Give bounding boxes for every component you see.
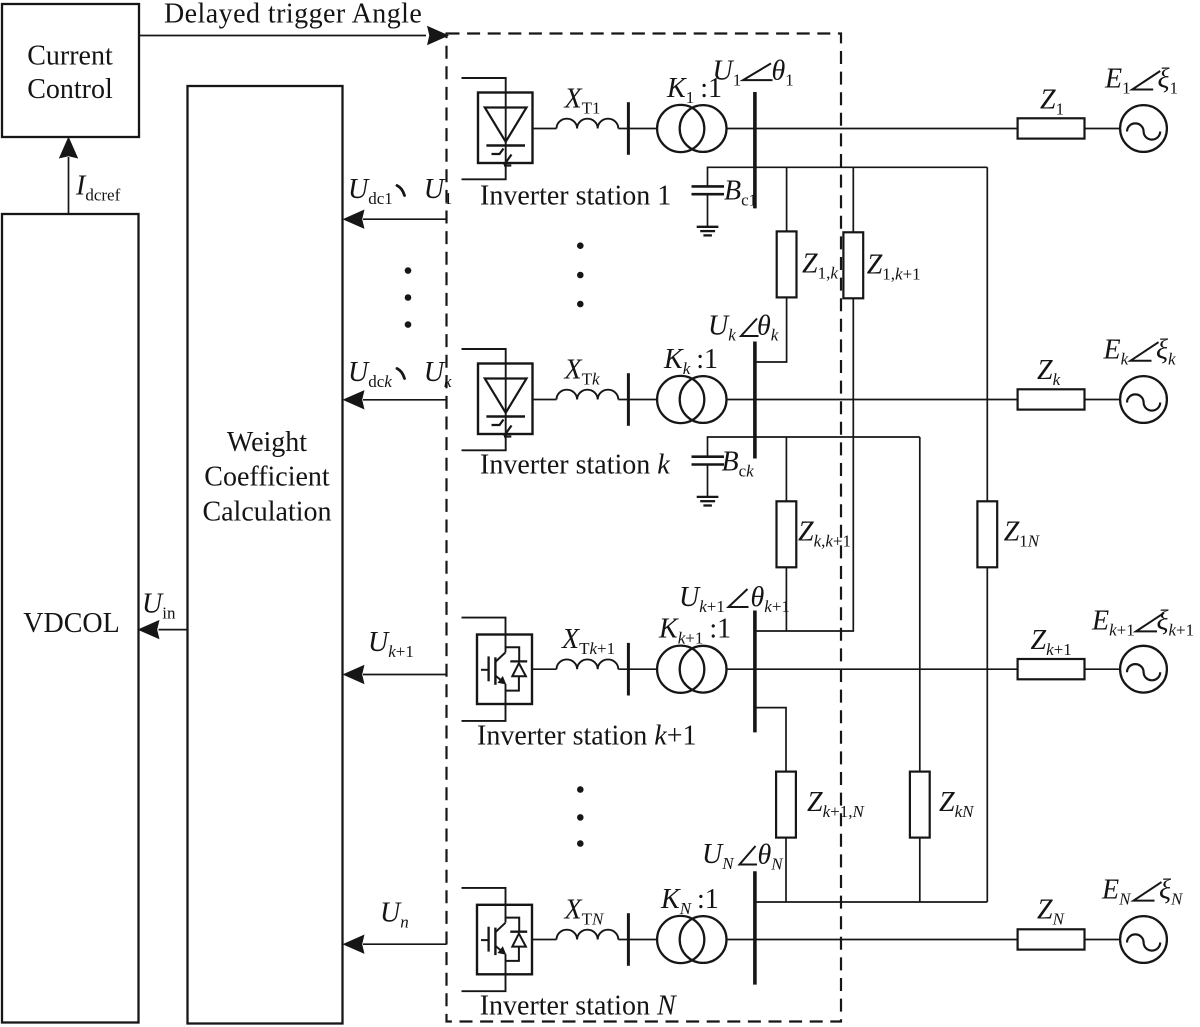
svg-text:Ek: Ek	[1103, 335, 1129, 369]
svg-text:Ek+1: Ek+1	[1091, 605, 1135, 639]
dots between station rows (left column)	[405, 267, 412, 274]
wire Zk,k+1 top lead	[785, 437, 787, 501]
wire Delayed trigger Angle arrow	[140, 35, 427, 37]
svg-text:θk: θk	[757, 311, 779, 345]
wire Idcref arrow VDCOL to Current Control	[68, 157, 70, 214]
svg-text:Z1,k: Z1,k	[802, 249, 838, 283]
svg-text:XT1: XT1	[564, 84, 601, 118]
svg-text:ξk+1: ξk+1	[1157, 605, 1195, 639]
wire Z1N bottom lead	[986, 567, 988, 902]
svg-text:Zk+1,N: Zk+1,N	[807, 787, 865, 821]
inductor XT1	[557, 119, 619, 129]
wire station k sub-line	[707, 436, 920, 438]
bus bar converter bus 1	[627, 102, 630, 155]
svg-text:Kk:1: Kk:1	[663, 344, 718, 378]
AC bus Uk+1	[753, 611, 757, 733]
svg-text:XTN: XTN	[564, 895, 606, 929]
wire transformer to Z line N	[727, 939, 1018, 941]
svg-text:θN: θN	[758, 840, 785, 874]
wire Un feedback arrow	[363, 943, 447, 945]
capacitor Bc1	[707, 167, 709, 186]
svg-text:Uk+1: Uk+1	[368, 627, 414, 661]
impedance ZkN	[910, 772, 930, 838]
wire Z1,k top lead	[786, 167, 788, 231]
svg-text:Bck: Bck	[722, 447, 755, 481]
wire ZkN bottom lead	[919, 838, 921, 902]
svg-text:Inverter station N: Inverter station N	[480, 991, 677, 1022]
impedance ZN	[1018, 929, 1085, 949]
svg-text:Zk+1: Zk+1	[1031, 625, 1072, 659]
capacitor Bck	[707, 437, 709, 457]
converter valve (VSC IGBT) station N	[462, 888, 533, 991]
dashed boundary box of inverter stations	[447, 34, 842, 1022]
svg-text:E1: E1	[1104, 64, 1131, 98]
impedance Zk+1	[1018, 659, 1085, 679]
wire Z1N top lead	[986, 167, 988, 501]
svg-text:ZkN: ZkN	[939, 787, 975, 821]
bus bar converter bus k+1	[627, 643, 630, 696]
svg-text:Inverter station k+1: Inverter station k+1	[477, 721, 697, 752]
svg-text:Uk: Uk	[424, 357, 452, 391]
impedance Z1N	[977, 501, 997, 567]
block Current Control	[2, 4, 139, 137]
wire transformer to Z line 1	[727, 128, 1018, 130]
svg-text:Z1N: Z1N	[1004, 517, 1041, 551]
svg-text:ξN: ξN	[1159, 875, 1184, 909]
svg-text:VDCOL: VDCOL	[23, 608, 119, 639]
impedance Zk+1,N	[776, 772, 796, 838]
transformer Tk+1	[657, 646, 704, 693]
svg-text:Bc1: Bc1	[724, 176, 757, 210]
wire Z1,k+1 bottom lead to bus k+1	[755, 298, 853, 631]
svg-text:ξk: ξk	[1156, 335, 1176, 369]
inductor XTk	[557, 390, 619, 400]
AC source Ek	[1120, 376, 1167, 423]
svg-text:Un: Un	[380, 898, 409, 932]
svg-text:XTk: XTk	[564, 355, 601, 389]
ground Bc1	[697, 226, 719, 228]
svg-text:Current: Current	[27, 41, 113, 72]
svg-text:Inverter station k: Inverter station k	[480, 450, 670, 481]
svg-text:ZN: ZN	[1037, 895, 1066, 929]
svg-text:Uin: Uin	[142, 589, 176, 623]
wire Zk+1,N bottom lead	[785, 838, 787, 902]
impedance Zk,k+1	[777, 501, 797, 567]
svg-text:UN: UN	[702, 839, 735, 873]
AC source EN	[1120, 916, 1167, 963]
svg-text:Coefficient: Coefficient	[204, 462, 330, 493]
svg-text:Z1,k+1: Z1,k+1	[867, 250, 921, 284]
svg-text:θ1: θ1	[772, 56, 794, 90]
svg-text:Weight: Weight	[227, 427, 307, 458]
svg-text:ξ1: ξ1	[1158, 64, 1179, 98]
ground Bck	[697, 496, 719, 498]
wire station N collector line	[755, 901, 987, 903]
svg-text:Uk+1: Uk+1	[679, 582, 725, 616]
svg-text:Z1: Z1	[1040, 85, 1064, 119]
svg-text:Zk: Zk	[1037, 355, 1061, 389]
wire Udc1,U1 feedback arrow	[363, 218, 447, 220]
svg-text:XTk+1: XTk+1	[561, 624, 615, 658]
converter valve (VSC IGBT) station k+1	[462, 618, 533, 721]
inductor XTN	[557, 930, 619, 940]
svg-text:Delayed trigger Angle: Delayed trigger Angle	[164, 0, 422, 30]
svg-text:Uk: Uk	[708, 311, 736, 345]
svg-text:Idcref: Idcref	[75, 171, 121, 205]
wire station1 sub-line	[707, 166, 988, 168]
transformer T1	[657, 105, 704, 152]
wire transformer to Z line k	[727, 399, 1018, 401]
AC bus UN	[753, 871, 757, 984]
impedance Z1,k+1	[843, 232, 863, 298]
wire transformer to Z line k+1	[727, 668, 1018, 670]
transformer TN	[657, 916, 704, 963]
block Weight Coefficient Calculation	[188, 86, 343, 1024]
wire Uk+1 feedback arrow	[363, 674, 447, 676]
wire ZkN top lead	[919, 437, 921, 772]
svg-text:Kk+1:1: Kk+1:1	[658, 614, 731, 648]
svg-text:KN:1: KN:1	[660, 884, 719, 918]
converter valve (LCC thyristor) station 1	[462, 78, 533, 179]
svg-text:Inverter station 1: Inverter station 1	[480, 181, 671, 212]
svg-text:Udc1: Udc1	[348, 174, 393, 208]
inductor XTk+1	[557, 659, 619, 669]
svg-text:U1: U1	[424, 174, 453, 208]
transformer Tk	[657, 376, 704, 423]
dots between station k+1 and N	[577, 786, 584, 793]
bus bar converter bus N	[627, 913, 630, 966]
impedance Z1	[1018, 118, 1085, 138]
wire bus k+1 tap to Zk+1,N	[755, 708, 786, 772]
AC bus Uk	[753, 342, 757, 459]
impedance Z1,k	[777, 231, 797, 297]
svg-text:U1: U1	[713, 56, 742, 90]
dots between station 1 and k	[577, 242, 584, 249]
svg-text:Control: Control	[27, 74, 113, 105]
impedance Zk	[1018, 389, 1085, 409]
AC bus U1	[753, 92, 757, 208]
AC source Ek+1	[1120, 646, 1167, 693]
wire Z1,k bottom lead to bus k	[755, 297, 787, 362]
svg-text:EN: EN	[1101, 875, 1132, 909]
svg-text:Udck: Udck	[348, 357, 392, 391]
wire Uin arrow Weight to VDCOL	[159, 629, 188, 631]
wire Zk,k+1 bottom lead	[785, 567, 787, 631]
wire Udck,Uk feedback arrow	[363, 399, 447, 401]
bus bar converter bus k	[627, 373, 630, 426]
block VDCOL	[2, 214, 139, 1023]
wire Z1,k+1 top lead	[852, 167, 854, 232]
converter valve (LCC thyristor) station k	[462, 349, 533, 450]
AC source E1	[1120, 105, 1167, 152]
svg-text:Calculation: Calculation	[202, 497, 331, 528]
svg-text:Zk,k+1: Zk,k+1	[798, 517, 851, 551]
